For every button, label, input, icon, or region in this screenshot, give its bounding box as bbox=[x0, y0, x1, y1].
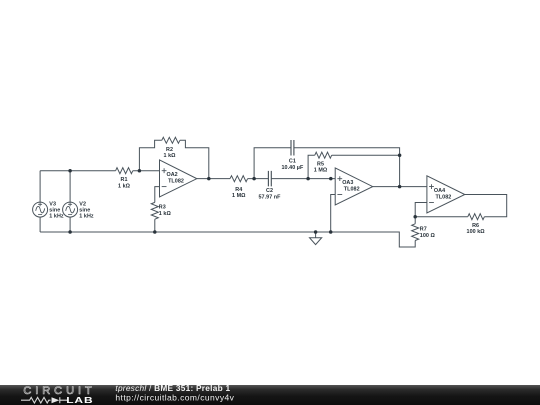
svg-text:LAB: LAB bbox=[66, 397, 93, 405]
svg-text:http://circuitlab.com/cunvy4v: http://circuitlab.com/cunvy4v bbox=[115, 392, 234, 402]
svg-text:CIRCUIT: CIRCUIT bbox=[23, 385, 95, 397]
